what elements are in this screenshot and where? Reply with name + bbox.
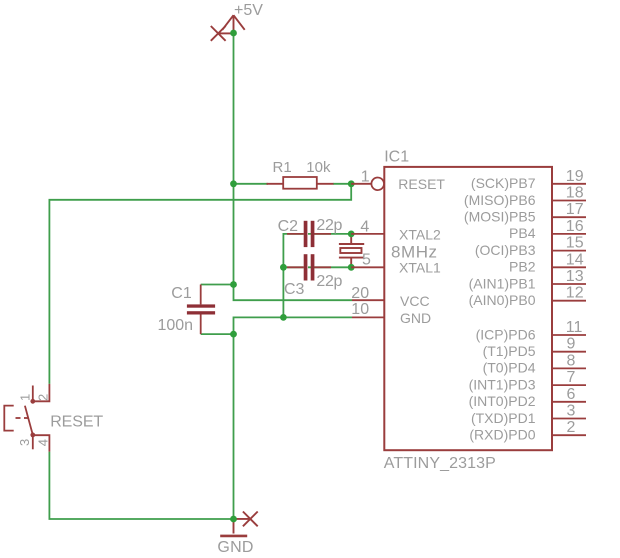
svg-text:XTAL2: XTAL2 (399, 226, 441, 242)
svg-text:(AIN1)PB1: (AIN1)PB1 (469, 275, 536, 291)
svg-text:5: 5 (362, 252, 371, 269)
capacitor C1 (200, 285, 202, 305)
wire: R1 right net segment (333, 183, 351, 185)
wire: C1 bottom lead horizontal to gnd rail (201, 333, 234, 335)
svg-text:ATTINY_2313P: ATTINY_2313P (384, 455, 496, 472)
svg-text:(T0)PD4: (T0)PD4 (483, 360, 536, 376)
svg-text:PB2: PB2 (509, 259, 536, 275)
wire: RESET net from R1 junction down and left to switch (49, 184, 351, 384)
svg-text:+5V: +5V (234, 2, 263, 19)
svg-text:2: 2 (567, 419, 576, 436)
svg-text:4: 4 (35, 439, 50, 446)
switch contact node bottom (30, 433, 35, 438)
node cross at GND (243, 512, 258, 527)
svg-text:3: 3 (567, 403, 576, 420)
capacitor C3 (287, 266, 304, 268)
svg-text:(TXD)PD1: (TXD)PD1 (471, 410, 536, 426)
pin 2 lead (552, 434, 586, 436)
svg-text:RESET: RESET (398, 176, 445, 192)
right pin numbers (566, 168, 584, 436)
svg-text:(INT0)PD2: (INT0)PD2 (469, 393, 536, 409)
pin 16 lead (552, 233, 586, 235)
pin 2 lead (L shape) (33, 384, 50, 401)
svg-text:4: 4 (360, 218, 369, 235)
wire: switch bottom to ground rail (49, 452, 233, 519)
svg-text:6: 6 (567, 386, 576, 403)
wire: +5V rail vertical down to VCC corner (234, 33, 353, 300)
svg-text:10: 10 (351, 301, 369, 318)
svg-text:R1: R1 (273, 159, 292, 176)
svg-text:1: 1 (18, 394, 33, 401)
actuator bracket (4, 406, 13, 431)
svg-text:IC1: IC1 (384, 148, 409, 165)
svg-text:12: 12 (566, 285, 584, 302)
pin 3 lead (552, 418, 586, 420)
pin 4 lead (L shape) (33, 435, 50, 451)
svg-text:(SCK)PB7: (SCK)PB7 (471, 175, 536, 191)
svg-text:7: 7 (567, 369, 576, 386)
pin 12 lead (552, 300, 586, 302)
svg-text:(RXD)PD0: (RXD)PD0 (469, 427, 535, 443)
svg-text:22p: 22p (316, 217, 342, 234)
svg-text:PB4: PB4 (509, 225, 536, 241)
svg-text:(ICP)PD6: (ICP)PD6 (476, 326, 536, 342)
pin 7 lead (552, 384, 586, 386)
pin 1 lead (32, 386, 34, 402)
svg-text:C3: C3 (284, 281, 305, 298)
pin 10 GND lead (352, 316, 384, 318)
pin 6 lead (552, 401, 586, 403)
svg-text:2: 2 (35, 394, 50, 401)
svg-text:RESET: RESET (50, 414, 103, 431)
svg-text:(MOSI)PB5: (MOSI)PB5 (464, 209, 536, 225)
svg-text:15: 15 (566, 235, 584, 252)
wire: C1 top lead horizontal to +5V rail (201, 284, 234, 286)
pin 17 lead (552, 216, 586, 218)
wire: C2 left plate to gnd vertical (283, 234, 303, 318)
svg-text:1: 1 (361, 168, 370, 185)
node: R1 left junction (230, 180, 237, 187)
pin 14 lead (552, 266, 586, 268)
pin 9 lead (552, 351, 586, 353)
wire: XTAL1 net C3 to crystal/pin5 (308, 266, 351, 268)
svg-text:GND: GND (400, 310, 431, 326)
svg-text:22p: 22p (316, 273, 342, 290)
node: R1 right / pin1 junction (348, 180, 355, 187)
ground symbol GND (220, 519, 250, 536)
svg-text:14: 14 (566, 251, 584, 268)
pin 20 VCC lead (352, 299, 384, 301)
svg-text:11: 11 (566, 319, 583, 336)
svg-text:19: 19 (566, 168, 584, 185)
svg-text:9: 9 (567, 336, 576, 353)
svg-text:17: 17 (566, 201, 584, 218)
svg-text:(OCI)PB3: (OCI)PB3 (475, 242, 536, 258)
node: crystal top junction (348, 231, 355, 238)
svg-text:XTAL1: XTAL1 (399, 260, 441, 276)
pin 5 XTAL1 lead (351, 266, 384, 268)
svg-text:8: 8 (567, 352, 576, 369)
svg-text:(INT1)PD3: (INT1)PD3 (469, 376, 536, 392)
pin 13 lead (552, 283, 586, 285)
lever (25, 406, 33, 435)
svg-text:100n: 100n (158, 317, 194, 334)
svg-text:C2: C2 (278, 218, 299, 235)
wire: GND net from pin10 left then down to ground symbol (234, 317, 353, 519)
svg-text:(MISO)PB6: (MISO)PB6 (464, 192, 536, 208)
power symbol +5V (222, 15, 244, 33)
pin 11 lead (552, 334, 586, 336)
pin 19 lead (552, 183, 586, 185)
switch S1 RESET pushbutton (4, 384, 49, 452)
node: ground junction (230, 516, 237, 523)
pin 4 XTAL2 lead (351, 233, 384, 235)
wire: XTAL2 net C2 to crystal/pin4 (308, 233, 351, 235)
svg-text:16: 16 (566, 218, 584, 235)
pin 8 lead (552, 367, 586, 369)
node: C3/gnd junction (280, 264, 287, 271)
node: C1 top junction (230, 281, 237, 288)
svg-text:18: 18 (566, 185, 584, 202)
svg-text:3: 3 (17, 439, 32, 446)
right side pin leads (552, 184, 586, 435)
resistor R1 (267, 183, 284, 185)
crystal Q1 8MHz (339, 234, 364, 267)
right pin names (464, 175, 536, 442)
svg-text:10k: 10k (306, 159, 331, 176)
node: crystal bottom junction (348, 264, 355, 271)
node cross at +5V (211, 26, 232, 41)
pin 3 lead (32, 435, 34, 449)
svg-text:GND: GND (217, 539, 253, 556)
svg-text:C1: C1 (171, 285, 192, 302)
capacitor C2 (287, 233, 304, 235)
svg-text:(AIN0)PB0: (AIN0)PB0 (469, 292, 536, 308)
node: caps gnd to GND net junction (280, 314, 287, 321)
node: C1 bottom junction (230, 331, 237, 338)
pin 15 lead (552, 250, 586, 252)
IC1 ATTINY_2313P box (384, 167, 552, 450)
actuator dashes (16, 417, 21, 419)
switch contact node top (30, 399, 35, 404)
svg-text:20: 20 (351, 285, 369, 302)
node: junction below +5V (230, 30, 237, 37)
pin 18 lead (552, 200, 586, 202)
wire: C3 left plate to gnd vertical (283, 266, 303, 268)
svg-text:(T1)PD5: (T1)PD5 (483, 343, 536, 359)
wire: R1 left net segment (234, 183, 269, 185)
svg-text:13: 13 (566, 268, 584, 285)
svg-text:VCC: VCC (400, 293, 430, 309)
pin 1 RESET lead and inversion circle (351, 183, 371, 185)
